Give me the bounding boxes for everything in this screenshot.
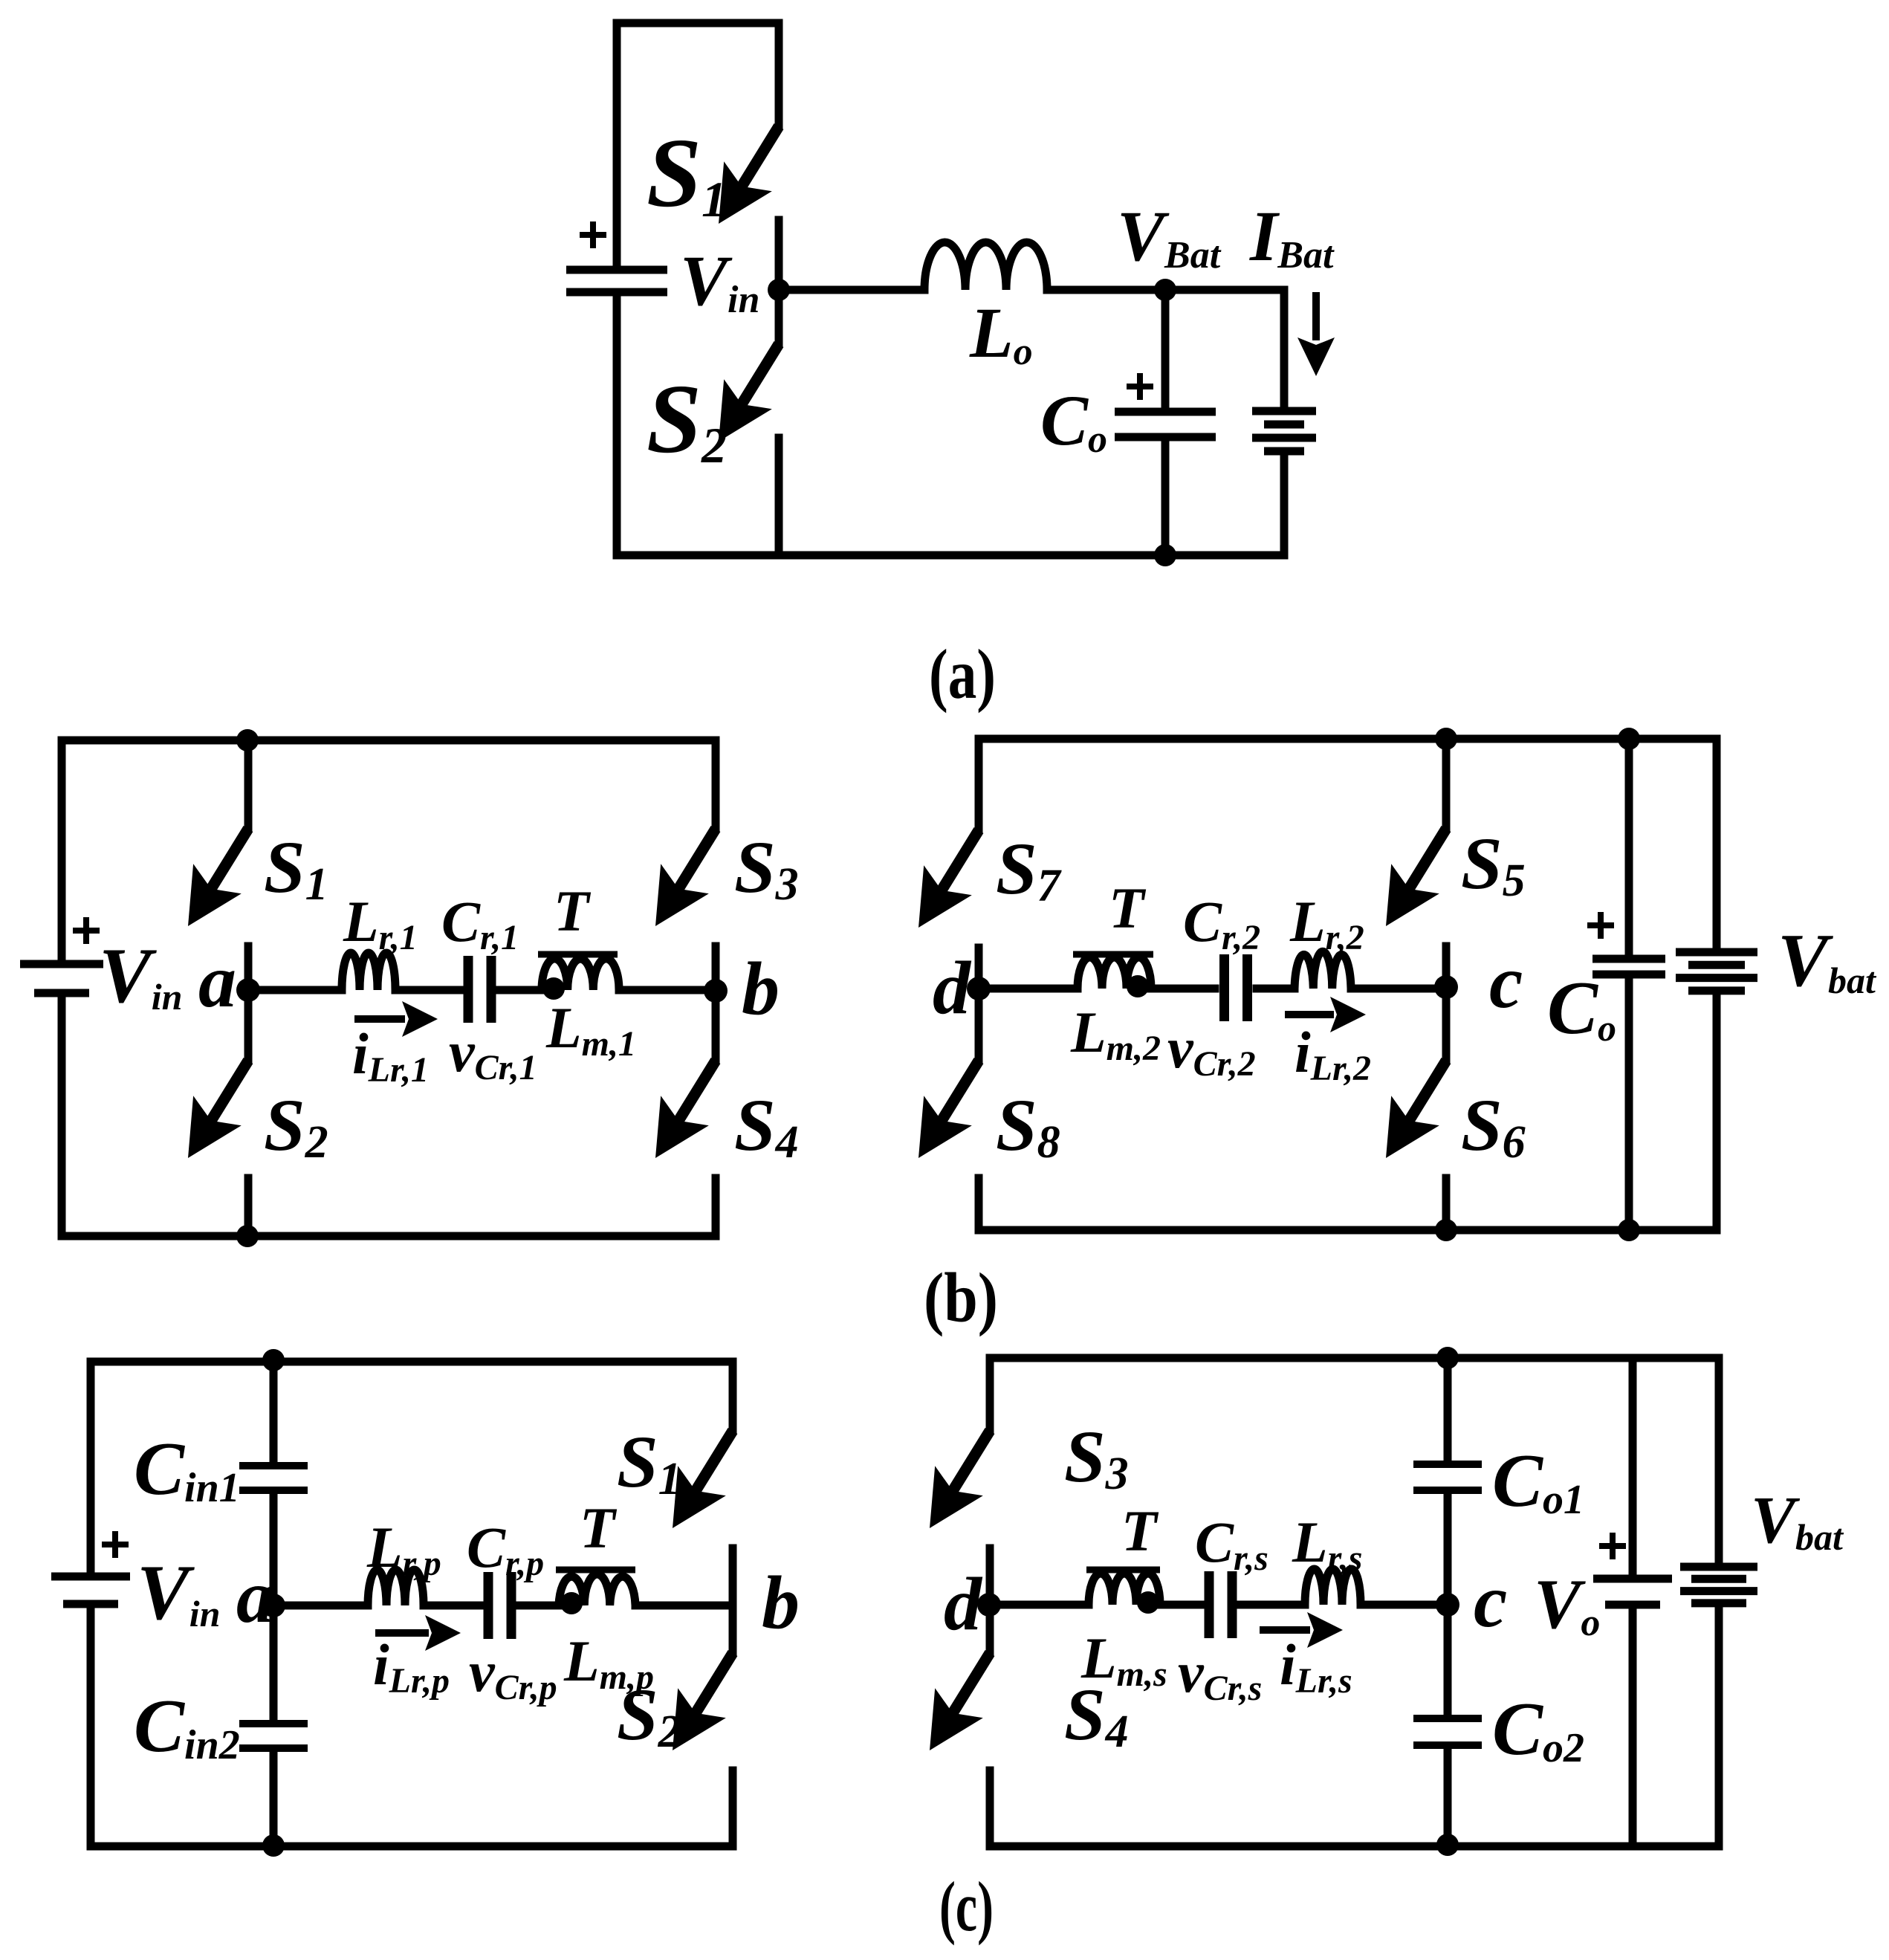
svg-text:(a): (a) [929,635,996,714]
svg-text:(b): (b) [924,1258,998,1337]
svg-text:c: c [1489,940,1523,1024]
svg-text:a: a [236,1555,274,1639]
svg-text:d: d [933,946,972,1030]
svg-text:T: T [1121,1498,1159,1563]
svg-text:a: a [198,939,236,1023]
svg-text:T: T [1109,876,1147,940]
svg-text:d: d [944,1562,983,1646]
svg-text:c: c [1474,1559,1507,1643]
svg-text:b: b [762,1561,800,1645]
svg-text:(c): (c) [939,1867,994,1946]
svg-text:T: T [554,879,592,943]
svg-text:T: T [580,1495,618,1560]
svg-text:b: b [742,947,780,1031]
